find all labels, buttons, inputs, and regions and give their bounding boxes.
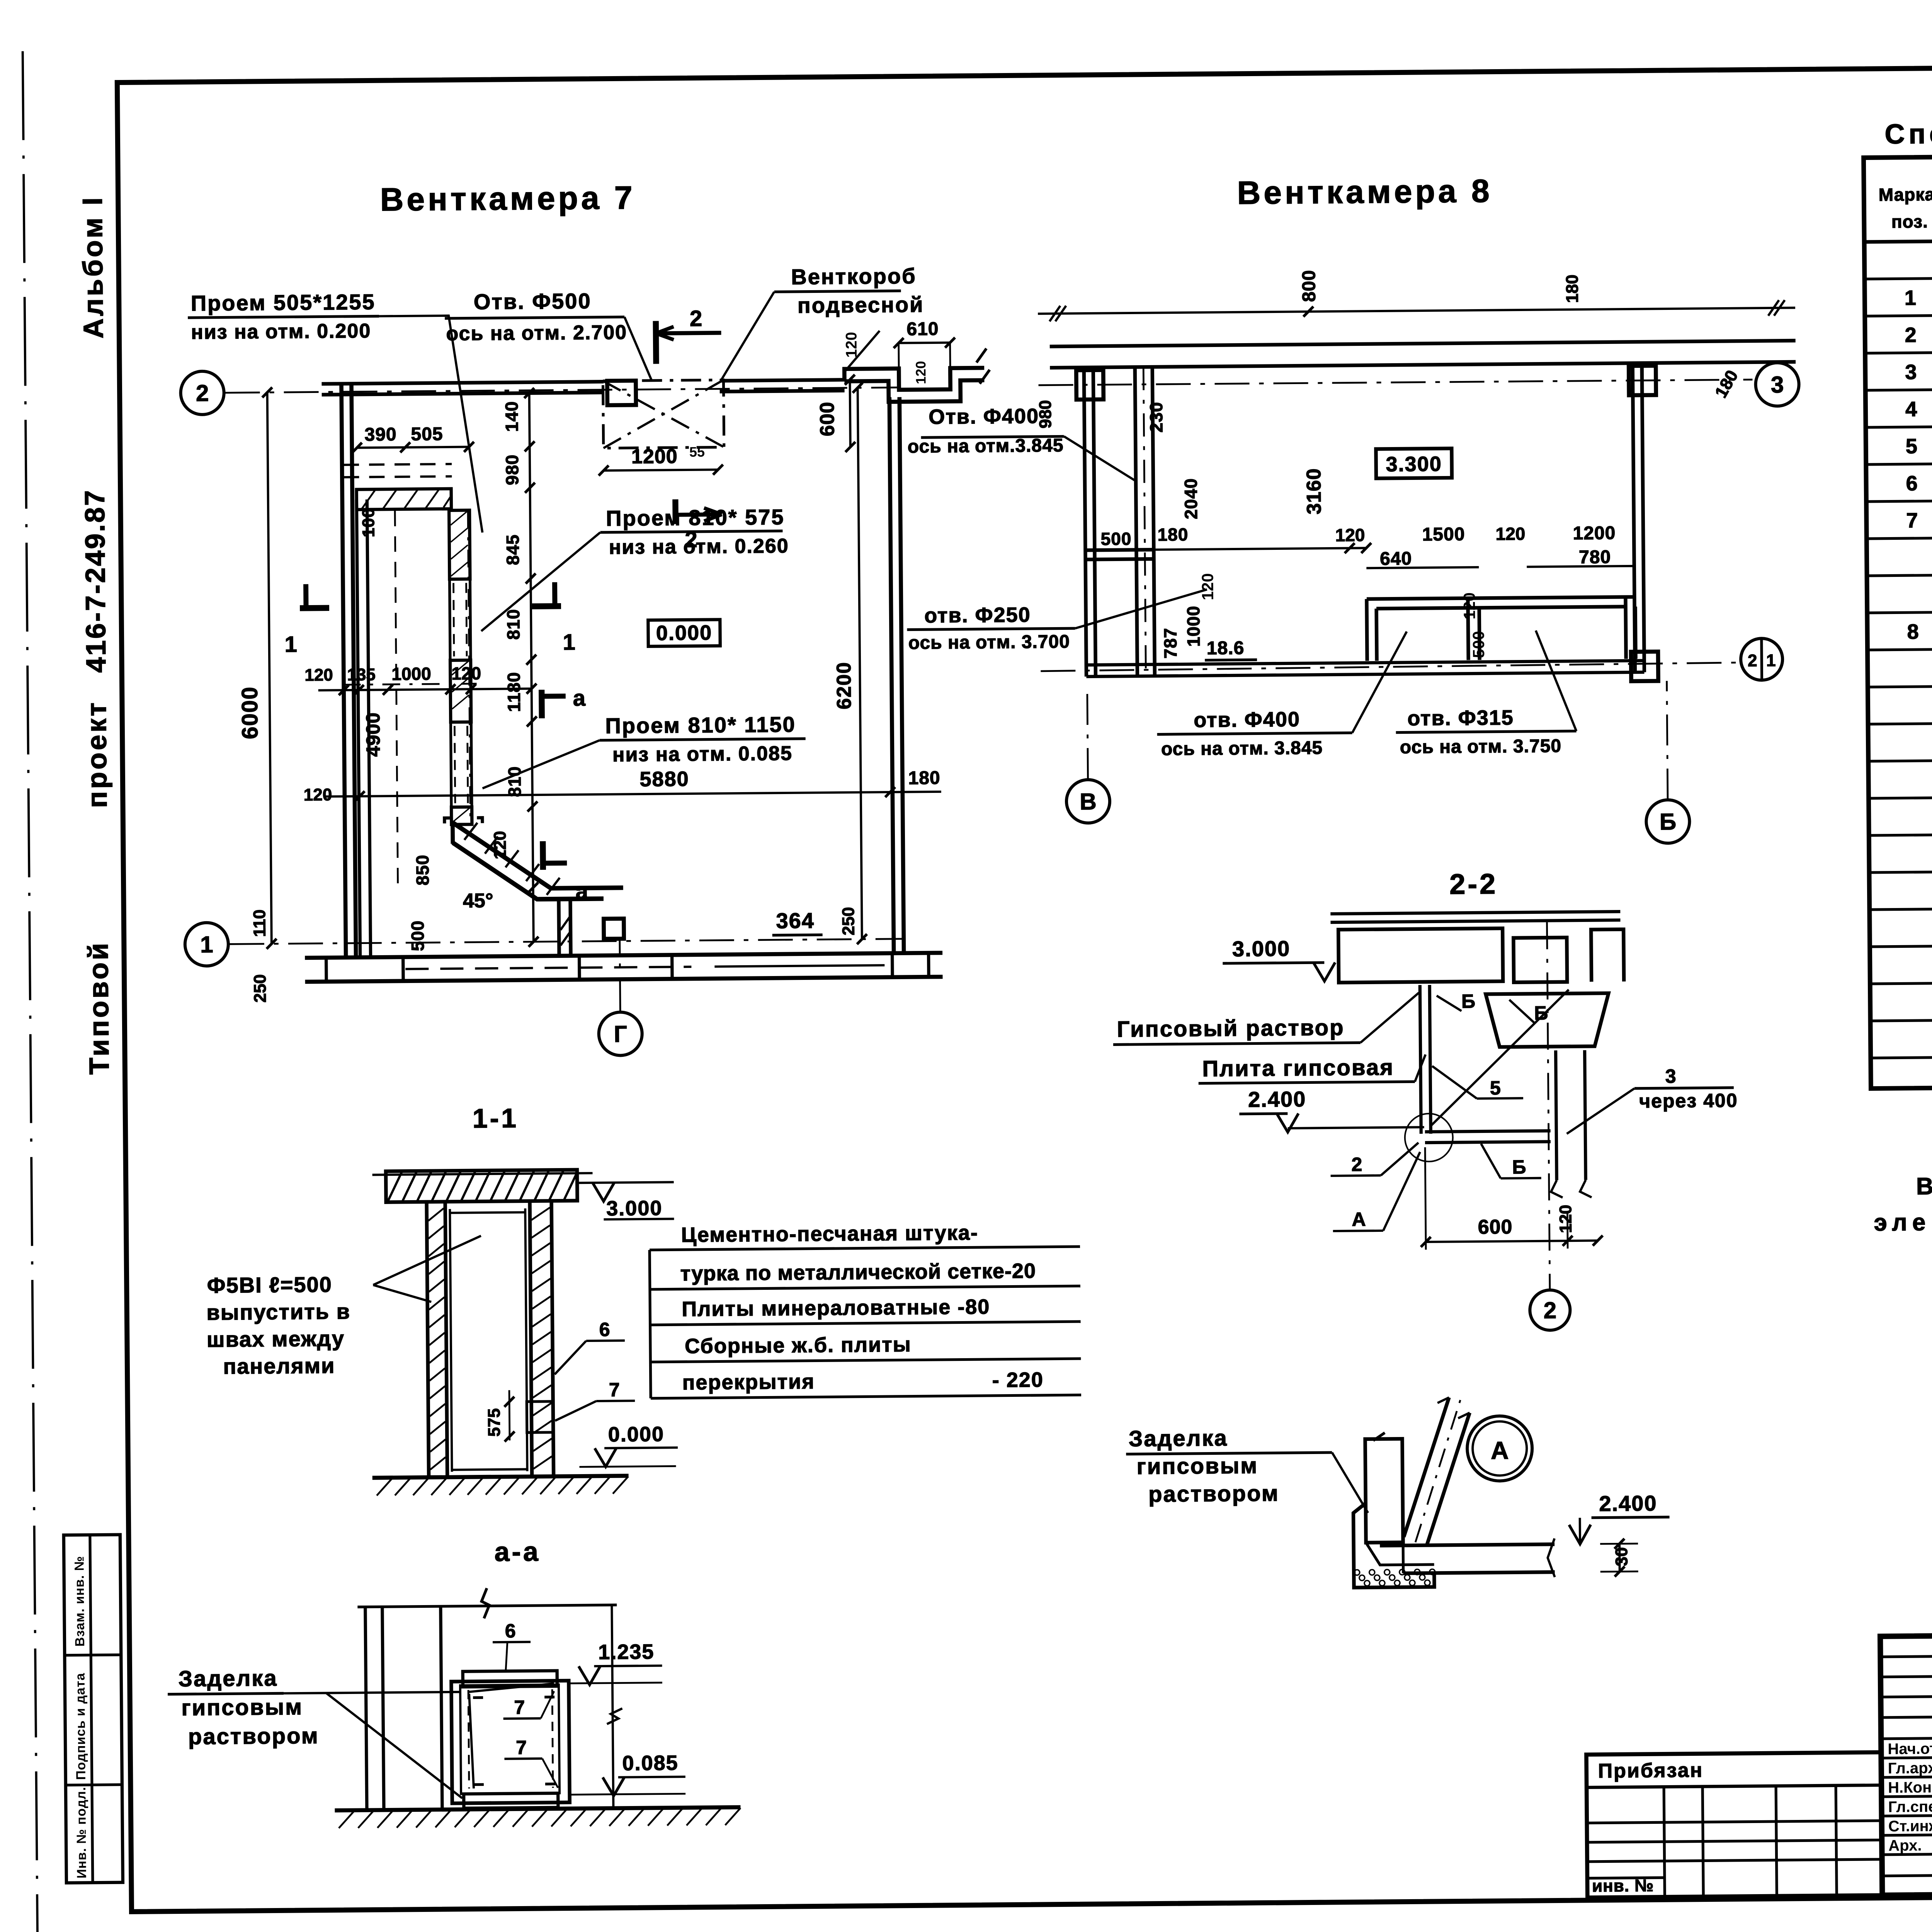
svg-text:швах между: швах между [207,1326,345,1352]
svg-text:0.000: 0.000 [608,1423,665,1446]
svg-text:Б: Б [1512,1156,1526,1178]
svg-text:180: 180 [1563,274,1582,303]
svg-text:810: 810 [504,766,525,797]
svg-text:1180: 1180 [503,672,524,712]
plan8 axis circle Б [1667,681,1668,799]
svg-text:787: 787 [1160,628,1180,658]
svg-text:120: 120 [491,831,510,859]
plan8 top dim line 800 [1038,308,1795,314]
plan7 diagonal duct 45deg [452,821,623,889]
plan8 left wall [1084,367,1086,677]
svg-text:Гл.арх.пр: Гл.арх.пр [1888,1759,1932,1777]
svg-text:низ на отм. 0.200: низ на отм. 0.200 [191,320,371,344]
svg-text:1000: 1000 [1183,605,1204,647]
section1-1 ground line [372,1476,629,1478]
svg-text:505: 505 [411,424,443,445]
plan7 venkorob dim 1200 [604,469,718,470]
section2-2 right blocks [1514,937,1567,982]
svg-text:45°: 45° [463,889,493,912]
frame top line extension [117,62,1932,83]
section а-а ground [335,1807,740,1810]
svg-text:Альбом I: Альбом I [77,195,109,338]
svg-text:1200: 1200 [631,445,678,468]
svg-text:1: 1 [1905,286,1917,310]
section1-1 ceiling slab hatched [386,1170,577,1202]
plan7 bottom wall panels [305,953,942,958]
svg-text:ось на отм. 3.700: ось на отм. 3.700 [908,631,1070,653]
plan7 shaft opening 1 (Проем 810x575) [449,579,471,660]
section2-2 center line + circle 2 [1547,922,1550,1290]
svg-text:3: 3 [1905,361,1917,384]
svg-text:500: 500 [1100,529,1131,549]
svg-text:120: 120 [1460,592,1479,619]
detail A horizontal plate [1380,1544,1554,1546]
svg-text:800: 800 [1299,270,1320,302]
svg-text:2: 2 [1543,1297,1556,1323]
svg-text:140: 140 [502,401,522,432]
plan7 dim row 120/135/1000/120 [318,689,532,690]
svg-text:500: 500 [407,920,428,951]
svg-text:ось на отм.3.845: ось на отм.3.845 [908,435,1064,457]
detail A dim 30 [1618,1544,1621,1571]
plan7 section mark 1-1 right [532,603,561,609]
svg-text:Гипсовый раствор: Гипсовый раствор [1117,1015,1344,1042]
svg-text:3: 3 [1665,1065,1676,1087]
plan7 venkorob box (dash-dot) [603,380,724,448]
svg-text:Отв. Ф400: Отв. Ф400 [929,405,1039,429]
plan7 duct shaft right wall (hatched, 3 segments) [449,510,470,579]
svg-text:отв. Ф250: отв. Ф250 [924,603,1031,627]
svg-text:8: 8 [1907,620,1919,643]
plan7 section mark 1-1 left [300,605,329,611]
svg-text:6200: 6200 [833,662,855,709]
svg-text:отв. Ф400: отв. Ф400 [1194,708,1300,732]
svg-text:5880: 5880 [639,767,689,791]
svg-text:2: 2 [690,306,702,331]
svg-text:- 220: - 220 [992,1368,1044,1392]
svg-text:раствором: раствором [188,1723,319,1750]
section а-а panel assembly [451,1681,570,1803]
plan8 partition wall [1135,367,1137,676]
svg-text:4: 4 [1905,398,1917,421]
section1-1 inner lining [450,1209,452,1472]
plan7 dim chain vertical middle [529,393,534,942]
svg-text:Плиты минераловатные -80: Плиты минераловатные -80 [682,1295,990,1321]
plan7 axis circle 2 [180,371,224,415]
svg-text:2040: 2040 [1180,478,1201,519]
svg-text:230: 230 [1146,402,1167,433]
plan8 axis circle В [1087,685,1088,779]
svg-text:Спецификация элементов вент: Спецификация элементов венткамер [1884,114,1932,150]
section1-1 right wall [530,1201,532,1476]
left stamp boxes [64,1535,123,1883]
plan7 dim 6200 line [858,388,862,939]
svg-text:120: 120 [913,361,929,384]
svg-text:1: 1 [284,632,297,657]
plan7 section mark 2 top [653,321,659,364]
detail A panel [1365,1439,1403,1543]
svg-text:поз.: поз. [1891,211,1928,232]
svg-text:135: 135 [347,665,376,684]
svg-text:55: 55 [689,444,705,460]
svg-text:120: 120 [1556,1205,1575,1233]
suspended duct fragment plan (between plans) [844,368,984,390]
plan7 shaft inner axis line [468,510,470,821]
dim 610 [899,343,950,343]
svg-text:В: В [1080,789,1097,815]
svg-text:1: 1 [1766,651,1776,670]
svg-text:отв. Ф315: отв. Ф315 [1407,706,1514,730]
section2-2 gypsum plate vertical [1420,985,1421,1134]
svg-text:416-7-249.87: 416-7-249.87 [80,488,112,673]
plan8 3.300 level box [1376,449,1452,479]
section а-а wall lines [365,1607,367,1810]
svg-text:Г: Г [614,1021,627,1047]
svg-text:низ на отм. 0.260: низ на отм. 0.260 [609,535,789,559]
svg-text:через 400: через 400 [1639,1090,1738,1112]
svg-text:2: 2 [1748,651,1757,670]
plan7 column [604,918,624,939]
svg-text:120: 120 [451,663,481,684]
svg-text:3: 3 [1771,372,1784,398]
plan8 U-duct profiles [1367,597,1635,599]
section2-2 detail circle [1405,1114,1453,1162]
svg-text:Подпись и дата: Подпись и дата [73,1673,88,1780]
svg-text:5: 5 [1906,435,1918,458]
svg-text:4900: 4900 [362,712,384,757]
plan7 section mark 2 bottom [672,499,679,524]
svg-text:Гл.спец: Гл.спец [1888,1798,1932,1816]
svg-text:панелями: панелями [223,1353,335,1378]
svg-text:3.000: 3.000 [1232,936,1291,961]
svg-text:2.400: 2.400 [1599,1491,1657,1515]
plan8 bottom wall [1086,661,1644,665]
svg-text:180: 180 [1157,524,1188,545]
svg-text:575: 575 [485,1408,504,1437]
section1-1 level 3.000 [577,1182,674,1183]
svg-text:1200: 1200 [1573,523,1616,544]
plan7 right wall [889,397,894,953]
svg-text:500: 500 [1469,631,1488,658]
svg-text:раствором: раствором [1148,1481,1279,1507]
title block signature grid [1880,1655,1932,1657]
svg-text:Цементно-песчаная штука-: Цементно-песчаная штука- [681,1221,978,1247]
svg-text:Ф5ВI ℓ=500: Ф5ВI ℓ=500 [207,1272,333,1298]
svg-text:Сборные ж.б. плиты: Сборные ж.б. плиты [685,1333,912,1358]
plan8 stub wall [1085,550,1154,550]
plan7 dim 390/505 top [357,447,469,447]
svg-text:250: 250 [839,907,858,935]
svg-text:выпустить в: выпустить в [206,1299,350,1325]
svg-text:Б: Б [1461,990,1475,1012]
svg-text:0.085: 0.085 [622,1751,679,1775]
svg-text:1.235: 1.235 [598,1640,655,1664]
svg-text:Ст.инж: Ст.инж [1888,1818,1932,1835]
svg-text:подвесной: подвесной [798,292,924,318]
plan7 0.000 level box [648,619,720,646]
plan7 section mark a bottom [540,841,546,870]
svg-text:ось на отм. 2.700: ось на отм. 2.700 [446,321,627,345]
svg-text:980: 980 [502,454,522,485]
svg-text:1-1: 1-1 [473,1103,519,1134]
svg-text:1: 1 [200,932,213,957]
svg-text:810: 810 [503,609,524,640]
svg-text:Плита гипсовая: Плита гипсовая [1202,1055,1394,1082]
section а-а right dim line [612,1605,613,1808]
svg-text:Марка,: Марка, [1879,184,1932,205]
svg-text:120: 120 [843,332,860,358]
plan7 shaft opening 2 (Проем 810x1150) [451,722,472,807]
plan8 axis circle 3 [1755,362,1799,406]
svg-text:Взам. инв. №: Взам. инв. № [72,1556,87,1646]
svg-text:А: А [1352,1208,1366,1230]
svg-text:Отв. Ф500: Отв. Ф500 [474,289,592,314]
svg-text:3.000: 3.000 [606,1197,663,1220]
svg-text:120: 120 [1495,524,1525,544]
svg-text:1000: 1000 [391,663,431,684]
svg-text:а-а: а-а [494,1536,541,1567]
section1-1 left wall [427,1202,429,1477]
svg-text:364: 364 [776,908,815,933]
title block left attach table [1586,1752,1882,1898]
svg-text:180: 180 [908,768,940,789]
svg-text:5: 5 [1490,1077,1501,1099]
svg-text:120: 120 [1335,525,1365,545]
section1-1 dim 575 [509,1390,510,1440]
svg-text:перекрытия: перекрытия [682,1370,815,1395]
svg-text:ось на отм. 3.750: ось на отм. 3.750 [1400,736,1562,757]
svg-text:Заделка: Заделка [179,1665,278,1691]
svg-text:ось на отм. 3.845: ось на отм. 3.845 [1161,738,1323,759]
section а-а top dim line [357,1605,617,1607]
plan7 top wall [321,382,604,384]
svg-text:2: 2 [196,380,209,406]
plan8 axis 3 line [1039,379,1753,385]
plan7 axis line Г [620,939,620,1012]
outer sheet edge left [23,51,38,1932]
svg-text:3160: 3160 [1303,468,1325,514]
svg-text:Типовой: Типовой [83,940,115,1075]
svg-text:6: 6 [599,1319,610,1340]
section2-2 duct vertical [1556,1050,1557,1180]
svg-text:2: 2 [1905,323,1917,347]
plan7 axis circle Г [599,1012,642,1056]
svg-text:0.000: 0.000 [656,621,713,645]
svg-text:Венткороб: Венткороб [791,264,917,289]
detail A elbow (mortar fill) [1353,1503,1434,1588]
plan7 duct shaft left lining wall [357,500,360,957]
svg-text:Нач.отд: Нач.отд [1888,1740,1932,1758]
svg-text:6: 6 [1906,472,1918,495]
section2-2 bottom plate [1425,1131,1551,1132]
plan7 left wall [341,384,346,957]
svg-text:30: 30 [1612,1547,1631,1566]
svg-text:600: 600 [1478,1216,1512,1238]
svg-text:2: 2 [1351,1153,1362,1175]
svg-text:Проем 810* 575: Проем 810* 575 [606,505,785,531]
plan7 opening dashed in left wall [344,464,452,465]
svg-text:1500: 1500 [1422,524,1465,545]
plan8 dims right cluster [1136,548,1366,550]
svg-text:120: 120 [1198,573,1217,600]
svg-text:элементы с листа 15: элементы с листа 15 [1874,1207,1932,1236]
svg-text:А: А [1491,1436,1509,1464]
section2-2 slab body [1338,929,1503,983]
svg-text:гипсовым: гипсовым [1136,1453,1258,1479]
section2-2 diagonal wire [1430,990,1570,1126]
section2-2 trapezoid beam [1486,993,1609,1047]
svg-text:780: 780 [1579,547,1611,568]
plan8 axis circle 2/1 [1741,638,1783,680]
svg-text:низ на отм. 0.085: низ на отм. 0.085 [612,742,793,766]
svg-text:гипсовым: гипсовым [181,1694,303,1720]
svg-text:проект: проект [81,700,113,808]
plan8 axis column squares [1076,370,1104,400]
svg-text:600: 600 [816,401,839,436]
svg-text:Прибязан: Прибязан [1598,1759,1704,1782]
svg-text:100: 100 [359,508,378,537]
plan7 axis line 2 [225,388,900,393]
svg-text:120: 120 [304,785,332,804]
svg-text:120: 120 [304,665,333,685]
svg-text:110: 110 [250,910,269,937]
section2-2 ceiling slab lines [1330,912,1620,914]
section2-2 dim 600/120 [1426,1241,1598,1242]
spec table row lines [1864,272,1932,279]
svg-text:2.400: 2.400 [1248,1087,1306,1112]
detail A diagonal strut [1403,1398,1450,1537]
title block outer [1880,1630,1932,1895]
svg-text:1: 1 [563,629,575,655]
svg-text:845: 845 [503,534,523,565]
plan7 axis line 1 [230,939,904,944]
svg-text:6000: 6000 [237,686,263,740]
svg-text:980: 980 [1036,400,1055,429]
svg-text:а: а [573,685,586,711]
svg-text:3.300: 3.300 [1386,452,1442,476]
svg-text:640: 640 [1380,548,1412,569]
svg-text:турка по металлической сетке-2: турка по металлической сетке-20 [680,1259,1036,1285]
svg-text:250: 250 [250,974,270,1003]
svg-text:Заделка: Заделка [1129,1425,1228,1451]
svg-text:Проем 505*1255: Проем 505*1255 [191,289,376,315]
svg-text:Венткамера 7: Венткамера 7 [380,179,636,218]
svg-text:390: 390 [364,424,397,445]
svg-text:Проем 810* 1150: Проем 810* 1150 [605,712,796,738]
svg-text:а: а [575,879,588,904]
svg-text:2-2: 2-2 [1449,868,1498,900]
svg-text:Венткамера 8: Венткамера 8 [1237,173,1493,211]
plan8 top wall [1050,341,1796,347]
svg-text:Арх.: Арх. [1888,1837,1922,1854]
svg-text:850: 850 [412,855,433,886]
svg-text:18.6: 18.6 [1207,638,1245,659]
svg-text:Н.Контр: Н.Контр [1888,1779,1932,1796]
plan7 dim 5880 [325,792,941,797]
plan7 section mark a top [539,690,545,718]
svg-text:7: 7 [609,1379,620,1400]
section1-1 lower duct piece [527,1401,553,1433]
plan7 duct shaft top wall (hatched) [357,489,451,510]
plan8 right wall [1633,363,1635,672]
plan7 dim 6000 vertical [267,393,272,944]
detail A circle А [1467,1416,1532,1481]
plan7 axis circle 1 [185,922,228,966]
plan8 bottom axis line 2/1 [1041,663,1741,671]
svg-text:6: 6 [505,1620,516,1642]
svg-text:610: 610 [906,319,939,340]
svg-text:Инв. № подл.: Инв. № подл. [74,1787,89,1879]
spec table outer [1864,151,1932,1088]
svg-text:7: 7 [1906,509,1918,532]
spec table header row [1864,235,1932,242]
svg-text:7: 7 [514,1696,525,1718]
svg-text:7: 7 [516,1736,527,1758]
plan7 venkorob dim 600 [850,380,850,447]
svg-text:Б: Б [1660,809,1677,835]
